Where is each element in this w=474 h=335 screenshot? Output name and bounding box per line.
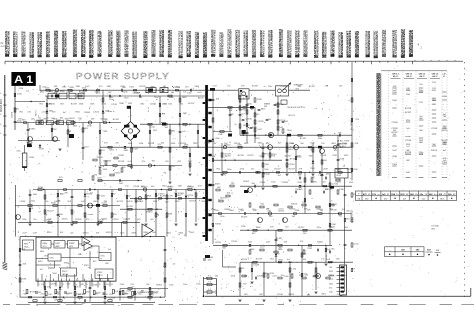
svg-text:R3305: R3305 [178,193,185,195]
svg-text:330K: 330K [256,227,261,229]
svg-text:BC337: BC337 [276,238,283,240]
svg-text:220n: 220n [268,86,272,88]
svg-text:D6515: D6515 [62,218,69,220]
svg-text:47K: 47K [355,143,359,145]
svg-text:BC337: BC337 [225,155,232,157]
svg-text:C2516: C2516 [289,164,296,166]
svg-text:1N4: 1N4 [105,263,108,265]
svg-text:150K: 150K [218,134,223,136]
svg-text:4HXNAFKBE2S: 4HXNAFKBE2S [410,30,414,57]
svg-text:WT7F26UTK3H5ZK: WT7F26UTK3H5ZK [180,31,184,59]
svg-text:19EZ63UD6AX: 19EZ63UD6AX [253,30,257,58]
svg-text:C2538: C2538 [80,92,86,94]
svg-text:DW3SYY4YH3V: DW3SYY4YH3V [261,30,265,57]
svg-text:10K: 10K [436,250,440,252]
svg-text:BY228: BY228 [75,219,82,221]
svg-text:3216: 3216 [109,97,113,99]
svg-text:SW: SW [264,106,267,108]
svg-text:KHD2GND2W931FG: KHD2GND2W931FG [245,30,249,57]
svg-text:3k3: 3k3 [139,97,142,99]
svg-text:CM 1.1: CM 1.1 [406,74,414,76]
svg-text:TS04: TS04 [52,273,57,275]
svg-text:R3305: R3305 [156,284,163,286]
svg-text:R3305: R3305 [101,218,108,220]
svg-text:NKND3R6V5A0: NKND3R6V5A0 [297,30,301,57]
svg-text:C2516: C2516 [231,241,238,243]
svg-text:R321: R321 [38,261,43,263]
svg-text:2x47: 2x47 [197,92,201,94]
svg-text:330K: 330K [247,104,252,106]
svg-text:BC337: BC337 [405,112,412,114]
svg-text:R3305: R3305 [311,181,318,183]
svg-text:PROT: PROT [62,271,68,273]
svg-text:682: 682 [60,117,63,119]
svg-text:150K: 150K [126,219,131,221]
svg-text:C2516: C2516 [241,259,248,261]
svg-text:C2516: C2516 [259,182,266,184]
svg-text:47K: 47K [113,214,117,216]
svg-text:330K: 330K [442,96,447,98]
svg-text:C2538: C2538 [150,103,157,105]
svg-text:TS04: TS04 [322,160,328,162]
svg-text:B+ ADJ: B+ ADJ [339,145,346,148]
svg-text:R3305: R3305 [215,224,222,226]
svg-text:150K: 150K [93,284,98,286]
svg-text:100n: 100n [120,232,124,234]
svg-text:H63SBN2U184R: H63SBN2U184R [324,32,328,58]
svg-text:C2516: C2516 [113,219,120,221]
svg-text:9: 9 [87,284,88,286]
svg-text:4u7: 4u7 [183,92,186,94]
svg-text:150K: 150K [90,104,95,106]
svg-text:R3305: R3305 [84,112,91,114]
svg-text:220n: 220n [299,275,303,277]
svg-text:C2538: C2538 [133,186,140,188]
svg-text:C2545: C2545 [29,157,35,159]
svg-text:R3216: R3216 [146,212,153,214]
svg-text:22n: 22n [420,194,424,196]
svg-text:D6515: D6515 [55,201,62,203]
svg-text:1K8: 1K8 [44,256,47,258]
svg-text:ON MODE SW 4.5V: ON MODE SW 4.5V [287,107,306,109]
svg-text:BC337: BC337 [127,206,134,208]
svg-text:TS04: TS04 [287,149,293,151]
svg-text:BY228: BY228 [140,86,147,88]
svg-text:H6020R964WPC: H6020R964WPC [375,31,379,59]
svg-text:R3216: R3216 [122,92,128,94]
svg-text:D6515: D6515 [278,210,285,212]
svg-text:ZYNC593H0MH4G: ZYNC593H0MH4G [161,29,165,57]
svg-text:R330: R330 [60,91,65,93]
svg-text:22n: 22n [251,168,254,170]
svg-text:VC6FCYC06HRD: VC6FCYC06HRD [91,30,95,58]
svg-text:C2516: C2516 [93,112,100,114]
svg-text:6801: 6801 [40,92,44,94]
svg-text:220n: 220n [151,87,155,89]
svg-text:3216: 3216 [419,154,423,156]
svg-text:BC337: BC337 [101,118,108,120]
svg-text:100n: 100n [128,143,132,145]
svg-text:SWADC9717EWB5P: SWADC9717EWB5P [118,30,122,57]
svg-text:10K: 10K [53,129,57,131]
svg-text:150K: 150K [241,226,246,228]
svg-text:BC337: BC337 [47,210,54,212]
svg-text:330K: 330K [159,92,164,94]
svg-text:330K: 330K [250,249,255,251]
svg-text:R321: R321 [84,265,89,267]
svg-text:330K: 330K [171,143,176,145]
svg-text:C2538: C2538 [257,276,264,278]
svg-text:V9GCH2SUW3H1U: V9GCH2SUW3H1U [237,30,241,58]
svg-text:BY22: BY22 [329,279,333,281]
svg-text:BC337: BC337 [309,86,316,88]
svg-text:15V: 15V [355,119,359,121]
svg-text:180ZCYZFW2HF: 180ZCYZFW2HF [23,31,27,57]
svg-text:150K: 150K [54,92,59,94]
svg-text:7.4: 7.4 [208,282,211,284]
svg-text:470: 470 [329,287,332,289]
svg-text:X6032B8Y2U577M: X6032B8Y2U577M [356,30,360,57]
svg-text:7D2WEKMYG1NG: 7D2WEKMYG1NG [109,29,113,57]
svg-text:R3216: R3216 [234,143,241,145]
svg-text:BY228: BY228 [117,201,124,203]
svg-text:D6515: D6515 [114,172,121,174]
svg-text:NWTSBG5SR73: NWTSBG5SR73 [188,30,192,57]
svg-text:8: 8 [0,93,1,95]
svg-text:2M2: 2M2 [145,92,149,94]
svg-text:BC337: BC337 [275,169,282,171]
svg-text:15V: 15V [243,283,247,285]
svg-text:5: 5 [63,284,64,286]
svg-text:150K: 150K [231,276,236,278]
svg-text:220n: 220n [41,294,45,296]
svg-text:C2538: C2538 [320,155,327,157]
svg-text:4u7: 4u7 [26,90,29,92]
svg-text:5UYS99KB1PGTT9: 5UYS99KB1PGTT9 [394,29,398,57]
svg-text:C2538: C2538 [405,140,412,142]
svg-text:D6515: D6515 [86,194,93,196]
svg-text:220n: 220n [248,242,252,244]
svg-text:UUG6R7BFRARK: UUG6R7BFRARK [82,28,86,57]
svg-text:OFF 0V: OFF 0V [288,115,296,117]
svg-text:C2516: C2516 [332,184,339,186]
svg-text:BY22: BY22 [88,248,93,250]
svg-text:AA 02: AA 02 [419,75,425,78]
svg-text:7RK395SK5CUA2: 7RK395SK5CUA2 [204,32,208,58]
svg-text:C2516: C2516 [109,298,116,300]
svg-text:150K: 150K [310,142,315,144]
svg-text:ERR: ERR [56,243,61,245]
svg-text:BC337: BC337 [248,155,255,157]
svg-text:6801: 6801 [40,251,44,253]
svg-text:1n5: 1n5 [406,146,409,148]
svg-text:150K: 150K [52,284,57,286]
svg-text:100n: 100n [284,276,288,278]
svg-text:center: center [107,110,113,113]
svg-text:D6515: D6515 [158,194,165,196]
svg-text:1N4: 1N4 [443,116,446,118]
svg-text:R3305: R3305 [122,294,129,296]
svg-text:GT1K3PFYY92: GT1K3PFYY92 [212,29,216,57]
svg-text:C2516: C2516 [174,87,181,89]
svg-text:C2538: C2538 [253,265,260,267]
svg-text:P2EC8MN2SFGE4W: P2EC8MN2SFGE4W [367,31,371,58]
svg-text:VMTVYSD41D6ZZ73W26GST7HSN5TRS2: VMTVYSD41D6ZZ73W26GST7HSN5TRS2DNSN0KP9E0… [378,73,382,176]
svg-text:BY228: BY228 [134,92,140,94]
svg-text:PROC: PROC [97,275,103,277]
svg-text:330K: 330K [146,195,151,197]
svg-text:220n: 220n [317,227,321,229]
svg-text:BC337: BC337 [298,227,305,229]
svg-text:10K: 10K [255,114,259,116]
svg-text:M60Y4D4X4BP: M60Y4D4X4BP [221,32,225,57]
svg-text:OSC: OSC [50,258,55,260]
svg-text:LATCH: LATCH [62,273,69,276]
svg-text:BY228: BY228 [148,143,155,145]
svg-text:4KNY1RZC6N60: 4KNY1RZC6N60 [332,30,336,57]
svg-text:330K: 330K [79,104,84,106]
svg-text:R3216: R3216 [431,150,438,152]
svg-text:KSUARN004R2F: KSUARN004R2F [196,31,200,57]
svg-text:C2538: C2538 [431,128,438,130]
svg-text:D6515: D6515 [127,201,134,203]
svg-text:220n: 220n [31,201,35,203]
svg-text:CFAST1YUMBHM: CFAST1YUMBHM [269,29,273,57]
svg-text:1n5: 1n5 [406,90,409,92]
svg-text:1: 1 [39,284,40,286]
svg-text:D6515: D6515 [312,276,319,278]
svg-text:47K: 47K [169,196,173,198]
svg-text:D6515: D6515 [69,118,75,120]
svg-text:GS09R027FYXMR: GS09R027FYXMR [153,30,157,57]
svg-text:U9WFKV6YS9G8: U9WFKV6YS9G8 [55,30,59,57]
svg-text:220n: 220n [329,291,333,293]
svg-text:4u7: 4u7 [40,269,43,271]
svg-text:D651: D651 [432,90,437,92]
svg-text:R3216: R3216 [288,294,295,296]
svg-text:330K: 330K [53,119,58,121]
svg-text:220n: 220n [271,182,275,184]
svg-text:6HHA0GRNK6C93: 6HHA0GRNK6C93 [134,31,138,58]
svg-text:150K: 150K [17,94,22,96]
svg-text:D6515: D6515 [83,232,90,234]
svg-text:C2516: C2516 [204,143,211,145]
svg-text:100n: 100n [264,169,268,171]
svg-text:R3305: R3305 [317,242,324,244]
svg-text:3k3: 3k3 [393,134,396,136]
svg-text:1n5: 1n5 [66,92,69,94]
svg-text:center: center [42,111,48,114]
svg-text:100n: 100n [208,260,212,262]
svg-text:330K: 330K [178,232,183,234]
svg-text:330K: 330K [314,273,319,275]
svg-text:150K: 150K [58,214,63,216]
svg-text:100n: 100n [331,227,335,229]
svg-text:VYGEP3FW938V8: VYGEP3FW938V8 [47,31,51,57]
svg-text:NETZ: NETZ [36,110,38,116]
svg-text:22n: 22n [337,294,340,296]
svg-text:CM 1.1: CM 1.1 [432,74,440,76]
svg-text:8: 8 [0,103,1,105]
svg-text:NHE4XGC53WG: NHE4XGC53WG [402,28,406,58]
svg-text:100n: 100n [196,284,200,286]
svg-text:8V2: 8V2 [93,261,96,263]
svg-text:R330: R330 [64,263,69,265]
svg-text:BC337: BC337 [71,104,78,106]
svg-text:220n: 220n [22,219,26,221]
svg-text:BC337: BC337 [132,149,139,151]
svg-text:TS04: TS04 [124,98,129,100]
svg-text:47K: 47K [263,147,267,149]
svg-text:100n: 100n [169,97,173,99]
svg-text:R3216: R3216 [326,189,333,191]
svg-text:VCO: VCO [43,246,48,248]
svg-text:R3216: R3216 [49,104,56,106]
svg-text:WD8RCWM5ZY7: WD8RCWM5ZY7 [15,31,19,57]
svg-text:C2516: C2516 [317,209,324,211]
svg-text:220n: 220n [290,143,294,145]
svg-text:22n: 22n [323,182,326,184]
svg-text:center: center [405,135,411,138]
svg-text:9.2: 9.2 [208,276,211,278]
svg-text:center: center [150,126,156,129]
svg-text:2538: 2538 [19,88,23,90]
svg-text:BC337: BC337 [285,156,292,158]
svg-text:22n: 22n [45,201,48,203]
svg-text:K346SN84VK5A: K346SN84VK5A [315,30,319,57]
svg-text:BY228: BY228 [118,161,125,163]
svg-text:D651: D651 [329,283,333,285]
svg-text:22n: 22n [48,219,51,221]
svg-text:TS04: TS04 [295,189,301,191]
svg-text:10K: 10K [23,264,27,266]
svg-text:R3216: R3216 [336,169,343,171]
svg-text:330K: 330K [143,232,148,234]
svg-text:11: 11 [99,284,101,286]
svg-text:BC337: BC337 [289,168,296,170]
svg-text:AA 02: AA 02 [393,75,399,78]
svg-text:1n5: 1n5 [70,91,73,93]
svg-text:330K: 330K [419,92,424,94]
svg-text:8: 8 [0,133,1,135]
svg-text:BY228: BY228 [180,143,187,145]
svg-text:100n: 100n [183,284,187,286]
svg-text:ZBHC7B6NCVH: ZBHC7B6NCVH [63,31,67,57]
svg-text:R3216: R3216 [291,204,298,206]
svg-text:SYNC: SYNC [97,272,103,274]
svg-text:BY228: BY228 [256,259,263,261]
svg-text:1M7ABN4BMPP: 1M7ABN4BMPP [340,32,344,58]
svg-text:150K: 150K [339,189,344,191]
svg-text:7: 7 [75,284,76,286]
svg-text:H6F44F7SAF28: H6F44F7SAF28 [126,30,130,57]
svg-text:33FUVZT8KFXSZ: 33FUVZT8KFXSZ [288,30,292,58]
svg-text:A 1: A 1 [14,74,33,86]
svg-text:13: 13 [111,284,113,286]
svg-text:MAINS 220V: MAINS 220V [0,98,3,112]
svg-text:150K: 150K [257,99,262,101]
svg-text:BC337: BC337 [241,216,248,218]
svg-text:AA 02: AA 02 [406,75,412,78]
svg-text:TS04: TS04 [76,294,82,296]
svg-text:C2538: C2538 [277,294,284,296]
svg-text:R3216: R3216 [264,174,271,176]
svg-text:15V: 15V [231,183,235,185]
svg-text:8W3UTS52XKN6H: 8W3UTS52XKN6H [229,29,233,58]
svg-text:R3216: R3216 [289,209,296,211]
svg-text:D6515: D6515 [335,182,342,184]
svg-text:C2538: C2538 [328,276,335,278]
svg-text:D6515: D6515 [106,232,113,234]
svg-text:10K: 10K [48,294,52,296]
svg-text:TS04: TS04 [154,97,159,99]
svg-text:D6515: D6515 [97,157,104,159]
svg-text:10K: 10K [216,99,220,101]
svg-text:BC337: BC337 [243,125,250,127]
svg-text:6801: 6801 [182,97,186,99]
svg-text:C2538: C2538 [118,155,125,157]
svg-text:OSC: OSC [101,256,106,258]
svg-text:22n: 22n [33,219,36,221]
svg-text:BC337: BC337 [190,201,197,203]
svg-text:330K: 330K [102,169,107,171]
svg-text:ZDBR2N46DHG: ZDBR2N46DHG [74,29,78,57]
svg-text:C2538: C2538 [19,201,26,203]
svg-text:center: center [353,242,359,245]
svg-text:CM 1.1: CM 1.1 [392,74,400,76]
svg-text:R321: R321 [329,271,333,273]
svg-text:AWG1Z1WSHTXK: AWG1Z1WSHTXK [6,30,10,57]
svg-text:C2538: C2538 [281,86,288,88]
svg-text:330K: 330K [215,184,220,186]
svg-text:47K: 47K [64,192,68,194]
svg-text:220n: 220n [120,284,124,286]
svg-text:47K: 47K [162,113,166,115]
svg-text:150K: 150K [153,201,158,203]
svg-text:TS04: TS04 [287,130,293,132]
svg-text:0A74T7M0WFCT9: 0A74T7M0WFCT9 [348,30,352,57]
svg-text:TS04: TS04 [275,104,281,106]
svg-text:150K: 150K [331,224,336,226]
svg-text:R3216: R3216 [442,130,449,132]
svg-text:D6515: D6515 [215,242,222,244]
svg-text:100n: 100n [169,284,173,286]
svg-text:10K: 10K [217,187,221,189]
svg-text:L5000: L5000 [11,111,13,118]
svg-text:10K: 10K [338,133,342,135]
svg-text:BC337: BC337 [300,138,307,140]
svg-text:C2538: C2538 [392,122,399,124]
svg-text:UR78ZTEKEH2WW: UR78ZTEKEH2WW [31,32,35,58]
svg-text:center: center [341,274,347,277]
svg-text:C2516: C2516 [405,154,412,156]
svg-text:5X8MTDT1M1R9K: 5X8MTDT1M1R9K [280,29,284,57]
svg-text:10K: 10K [302,202,306,204]
svg-text:CM 1.1: CM 1.1 [419,74,427,76]
svg-text:BY228: BY228 [198,97,204,99]
svg-text:9.3: 9.3 [208,289,211,291]
svg-text:center: center [88,213,94,216]
svg-text:center: center [272,275,278,278]
svg-text:YXDCWGVKE8P: YXDCWGVKE8P [99,31,103,57]
svg-text:22n: 22n [70,233,73,235]
svg-text:330K: 330K [131,233,136,235]
svg-text:150K: 150K [139,143,144,145]
svg-text:MWAWSCH58DT9: MWAWSCH58DT9 [305,30,309,57]
svg-text:150K: 150K [347,169,352,171]
svg-text:R3305: R3305 [243,181,250,183]
svg-text:100n: 100n [211,209,215,211]
